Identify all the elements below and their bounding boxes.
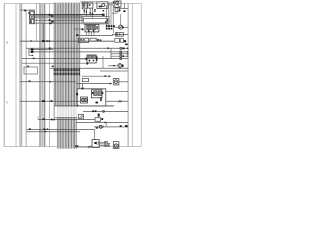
wire run y68.2: [50, 67, 128, 69]
link wire x106: [105, 122, 107, 127]
wire run y14.7: [35, 14, 105, 16]
sensor plug dark bar: [98, 114, 100, 117]
bus inline connector pin row 2: [54, 73, 80, 76]
relay K2 body: [88, 3, 93, 8]
M1 left pin: [113, 1, 114, 3]
wire splice pins x49-53: [49, 14, 54, 24]
wire run y131.7: [27, 131, 80, 132]
M1 drop wire x117.2: [116, 7, 118, 13]
pin square right of sender: [123, 10, 125, 12]
page border frame: [4, 3, 141, 146]
wire J1 to right y2.9: [108, 2, 114, 4]
wire run y76.2 with arrow: [82, 75, 111, 77]
wire y13.2: [112, 12, 117, 14]
junction box outline: [24, 67, 37, 74]
bus end blob: [75, 145, 78, 147]
E1 riser wire: [120, 14, 122, 25]
ignition switch upper contact circle: [30, 11, 34, 15]
switch left connector dot: [28, 12, 29, 14]
bus inline connector pin row 1: [54, 69, 80, 72]
frame-end ticks: [127, 48, 128, 57]
ignition switch S1 body: [30, 10, 35, 24]
wire run y81.8 left: [20, 80, 76, 82]
schematic inner frame right edge: [127, 3, 129, 146]
P1 outlet wires: [99, 142, 105, 145]
relay block inside M2: [91, 90, 102, 98]
wire run y129.4: [27, 128, 95, 130]
relay block right pin: [102, 92, 104, 94]
connector housing outer box: [82, 17, 109, 24]
wire run y83.5 right with arrow: [76, 82, 112, 84]
ignition switch lower contact circle: [30, 15, 34, 19]
vertical wire x26: [25, 10, 27, 147]
relay K1 body: [82, 2, 87, 9]
wire run y41.2: [20, 40, 114, 42]
branch wire with arrow y55.4: [29, 50, 34, 57]
fuse F2 wire y51.9: [29, 51, 128, 53]
vertical wire x36.3: [35, 3, 37, 41]
M2 feed drop x82.4: [82, 84, 84, 90]
X2 left pin dot: [82, 28, 84, 30]
relay block contact grid left: [94, 91, 97, 96]
drop wire to pump box: [94, 129, 96, 139]
K5 feed wire y58.9: [80, 58, 86, 60]
lamp E1 circle: [114, 25, 129, 29]
left vertical double rail: [20, 3, 22, 146]
instrument M1 box: [114, 1, 121, 7]
pin marks right of F6: [97, 39, 101, 41]
wire run y16.1: [35, 15, 83, 17]
resistor R1 on wire y34.4: [112, 33, 128, 37]
wire J1 to right y4.8: [108, 4, 113, 6]
fuse holder F5 box: [79, 38, 89, 42]
E1 drop wire: [113, 27, 115, 33]
fuse F1 wire y49.6: [29, 49, 53, 51]
wire run y63.2: [22, 62, 87, 64]
vertical link x103: [102, 56, 104, 68]
P1 connector block: [105, 141, 108, 146]
relay K5 body: [87, 55, 96, 63]
right collector bar x111: [110, 48, 112, 58]
K5 right terminal bar: [96, 56, 97, 60]
M2 dark bar pin: [100, 97, 101, 101]
wire run y101.3 left: [20, 100, 81, 102]
wire run y58.6: [22, 58, 128, 60]
small box B3: [82, 79, 88, 82]
diode D1 element: [108, 63, 124, 68]
pin marks right of P1: [108, 143, 110, 146]
connector pin row X1: [106, 25, 115, 29]
wire run y20.3: [35, 19, 84, 21]
wire run y56.2: [111, 55, 128, 57]
ground wire y147: [76, 146, 91, 148]
wire run y119.5: [38, 116, 95, 120]
small box pair right top: [115, 39, 126, 43]
wire run y122.4 with arrow: [76, 121, 128, 123]
relay drop wires with pin squares: [84, 8, 94, 18]
pin square x125.8 y44: [125, 44, 127, 46]
pump unit P1 box: [92, 140, 99, 148]
wire run y17.9: [35, 17, 84, 19]
relay block left pin: [92, 92, 94, 94]
lambda sensor circle on y126.9: [94, 125, 128, 128]
dense parallel wire bus: [54, 3, 81, 149]
wire run y53.8: [111, 53, 128, 55]
wire y81.8 right: [119, 81, 128, 83]
X2 drop wires: [87, 32, 95, 36]
X2 left pin wire: [74, 28, 82, 30]
gauge G1 with circle: [113, 79, 119, 85]
pin squares on y126 right: [120, 125, 128, 127]
K5 contact grid left: [88, 55, 91, 58]
control unit J1 box: [97, 2, 108, 9]
J1 lower pin dots: [94, 9, 104, 12]
K5 contact grid right: [92, 55, 95, 58]
wire run y23.1: [35, 22, 83, 24]
M2 corner pin: [76, 93, 78, 95]
top feed wire y1.8: [80, 1, 97, 3]
wire y8.6 to frame: [119, 8, 128, 10]
margin vertical rule x16: [15, 3, 17, 146]
wire run y101.3 right with chassis marks: [106, 100, 128, 102]
wire feed y10: [20, 10, 30, 12]
junction box label tick: [27, 66, 29, 67]
trunk tap wire x43.2: [42, 23, 44, 41]
wire run y111.4 with pins: [83, 110, 128, 112]
right feeder verticals: [107, 5, 114, 25]
margin vertical rule x132.3: [131, 3, 133, 146]
wire run y48.3 with arrow: [26, 47, 128, 49]
splice tick x52 y65.8: [52, 66, 54, 67]
K5 left pin square: [86, 58, 88, 60]
wire run y35.6: [76, 34, 113, 36]
faded expansion box over bus: [54, 106, 95, 118]
control module M2 outline: [77, 89, 106, 106]
connector housing inner box: [84, 18, 109, 23]
sender box below M1: [115, 8, 120, 12]
motor pair M3 box: [80, 97, 87, 103]
K5 inner pins: [89, 60, 94, 62]
M2 bottom wire y105.9: [54, 105, 114, 107]
hatched box B4: [78, 114, 83, 119]
wire y91.7 module to frame: [106, 91, 128, 93]
wire run y71: [100, 70, 128, 72]
switch terminal block: [30, 19, 34, 23]
K5 bottom-left pin dot: [87, 63, 89, 65]
vertical wire x124.6: [124, 3, 126, 8]
bottom-right lamp box: [113, 142, 119, 149]
M2 under-block pin: [96, 102, 99, 104]
small box B5: [95, 118, 103, 122]
main harness trunk band: [40, 3, 45, 146]
fuse holder F6 box: [90, 38, 96, 41]
relay block contact grid right: [98, 91, 101, 96]
connector block X2: [85, 24, 99, 32]
vertical wire x49.6: [49, 3, 51, 146]
